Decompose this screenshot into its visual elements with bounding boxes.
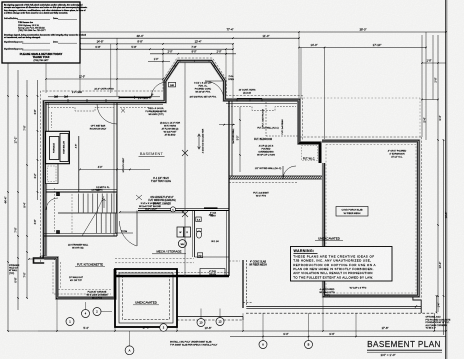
lower-left wall step (kitchen) [44, 258, 115, 298]
beam note cluster 1 [121, 108, 167, 116]
slab note diagonal text [249, 261, 267, 267]
windows in top wall [46, 60, 297, 104]
top dimension string 1 [45, 28, 447, 33]
bottom extension stems [57, 296, 356, 341]
bottom dimension line 1 [38, 326, 447, 332]
bay dimension string top [150, 51, 236, 55]
marker circle 10 [197, 309, 205, 327]
left dimension lines [4, 58, 81, 332]
left closet rects (furnace chase) [46, 103, 70, 256]
room label MECH / STORAGE [152, 250, 186, 254]
interior dim line [119, 210, 184, 213]
stringer wall note [68, 243, 89, 249]
left margin stringer note [9, 265, 20, 275]
toilet dia note [210, 212, 217, 218]
bedroom bottom wall hatched [229, 101, 323, 183]
warning box [291, 247, 393, 282]
opt bar note [90, 125, 125, 173]
water heater + appliances [177, 217, 219, 258]
mech dashed future lines [115, 259, 240, 263]
title BASEMENT PLAN [367, 340, 442, 357]
fut bathroom dashed partitions [262, 102, 300, 136]
mech room top wall [138, 207, 229, 217]
room label FUT KITCHENETTE [75, 263, 105, 267]
bedroom labels [254, 138, 276, 157]
interior labels small [72, 92, 149, 233]
marker circle A bottom left [125, 331, 134, 355]
patio label UNEXCAVATED [133, 301, 159, 305]
bottom center note [170, 341, 218, 347]
marker circle 1 [66, 318, 74, 326]
ceiling arrow [198, 134, 201, 149]
porch slab boxed label [336, 207, 368, 217]
kitchen interior dim [28, 257, 56, 260]
marker circle 4 [82, 302, 90, 318]
bottom dimension line 2 [230, 332, 446, 337]
top dimension string 2b [45, 40, 234, 45]
exterior wall: top left + bay window [44, 61, 320, 258]
porch exterior walls [322, 141, 418, 296]
marker circle 13 [216, 309, 224, 326]
mech/storage bottom wall [115, 273, 229, 277]
marker circle 2 [93, 308, 112, 316]
short dim near bedroom wall [219, 124, 235, 126]
bay dimension string [148, 59, 170, 62]
notes box top left [2, 2, 88, 63]
porch right step line [436, 295, 441, 313]
porch dashed footing outside [300, 98, 422, 299]
interior wall: hall top of stairs [46, 190, 117, 193]
marker circle B [305, 341, 313, 349]
porch wall note [388, 151, 407, 159]
marker circle A [259, 341, 267, 349]
top wall notes [190, 90, 256, 99]
fut WIC nook walls [299, 143, 320, 163]
door arcs [46, 81, 296, 246]
bedroom vertical dim [238, 107, 241, 172]
top dimension string 3 [79, 45, 234, 50]
right dimension lines [421, 35, 448, 335]
interior wall: stair/hall vertical [114, 103, 117, 236]
notes below warning box [319, 287, 366, 298]
basement notes [151, 177, 171, 183]
bay window notes [148, 74, 234, 99]
room label BASEMENT [139, 152, 165, 156]
top dimension string right [298, 43, 427, 48]
top extension lines [46, 32, 426, 140]
porch label UNEXCAVATED [315, 237, 343, 241]
beam note cluster 2 [160, 123, 181, 137]
unexcavated bottom strip lines [177, 260, 434, 331]
interior wall: below stairs [44, 234, 117, 237]
column marks [182, 150, 188, 217]
stair left wall [76, 136, 79, 192]
center beam line [185, 62, 205, 276]
stairs [57, 189, 186, 236]
bottom right note [426, 316, 451, 330]
wall bump-out left [34, 258, 45, 263]
mech room right wall [227, 101, 230, 276]
footing dashed line outside top/left walls [41, 58, 303, 262]
bottom-left patio: concentric walls [115, 269, 177, 327]
sheet border [445, 0, 447, 359]
porch dashed inner line [326, 145, 416, 294]
marker circle 3 [160, 324, 168, 332]
stair side note [139, 202, 161, 208]
interior dim line top-left [45, 76, 164, 91]
plumbing bay wall [193, 211, 230, 258]
floor drain box label [200, 269, 225, 277]
kitchen notes [69, 276, 84, 282]
top dimension string 2 [45, 34, 300, 39]
kitchen counter dashed [58, 262, 112, 290]
hall dim line [79, 167, 150, 189]
future partition dashed lines below top wall [48, 107, 296, 113]
